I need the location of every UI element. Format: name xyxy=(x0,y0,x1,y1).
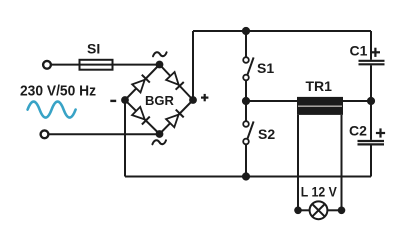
wire plus rail from bridge to top bus xyxy=(192,31,194,100)
lamp L 12 V xyxy=(294,185,345,220)
wire C2 top lead xyxy=(370,101,372,140)
diode D1 top-left xyxy=(132,75,150,93)
svg-text:C1: C1 xyxy=(350,42,368,58)
junction dot TR1 right / C1 C2 rail xyxy=(367,97,375,105)
wire C1 top lead xyxy=(370,31,372,60)
svg-text:L 12 V: L 12 V xyxy=(301,185,337,200)
wire TR1 secondary left side down to lamp xyxy=(297,115,299,210)
wire C1 bottom lead xyxy=(370,65,372,101)
TR1 core divider line xyxy=(298,105,342,107)
plus sign at right node xyxy=(201,94,208,101)
minus sign at left node xyxy=(110,100,116,102)
wire bridge edge top-left xyxy=(125,65,160,101)
wire lamp left lead xyxy=(298,209,310,211)
lamp terminal right xyxy=(338,207,346,215)
wire bottom bus xyxy=(125,176,371,178)
AC tilde bottom node xyxy=(152,140,166,144)
wire minus rail down from bridge left node xyxy=(124,100,126,177)
wire TR1 secondary right side down to lamp xyxy=(341,115,343,210)
transformer TR1 xyxy=(297,78,343,115)
wire bridge edge top-right xyxy=(160,65,194,101)
lamp terminal left xyxy=(294,207,302,215)
capacitor C2 xyxy=(349,123,385,145)
TR1 winding bar xyxy=(297,97,343,115)
svg-text:BGR: BGR xyxy=(145,93,175,108)
svg-text:230 V/50 Hz: 230 V/50 Hz xyxy=(20,84,96,100)
wire switch column upper segment xyxy=(245,31,247,57)
wire C2 bottom lead xyxy=(370,146,372,177)
node top (AC) xyxy=(156,61,164,69)
node left (minus) xyxy=(121,96,129,104)
terminal upper AC input xyxy=(43,61,51,69)
terminal lower AC input xyxy=(41,130,49,138)
svg-text:SI: SI xyxy=(87,41,100,57)
AC tilde top node xyxy=(153,52,167,56)
wire bridge edge bottom-right xyxy=(160,100,194,134)
wire TR1 right lead xyxy=(343,100,371,102)
svg-text:S1: S1 xyxy=(257,60,274,76)
wire between S2 lower contact and bottom bus xyxy=(245,144,247,176)
diode D2 top-right xyxy=(166,72,184,90)
wire lamp right lead xyxy=(327,209,341,211)
wire TR1 left lead xyxy=(246,100,297,102)
wire lower AC input xyxy=(49,133,160,135)
node bottom (AC) xyxy=(156,130,164,138)
wire between S1 lower contact and TR1 node xyxy=(245,80,247,121)
diode D4 bottom-right xyxy=(166,109,184,127)
wire bridge edge bottom-left xyxy=(125,100,160,134)
node right (plus) xyxy=(189,96,197,104)
fuse SI xyxy=(80,60,113,70)
wire fuse input xyxy=(51,64,160,66)
bridge rectifier BGR xyxy=(110,52,208,144)
junction dot S1/S2/TR1 node xyxy=(242,97,250,105)
svg-text:TR1: TR1 xyxy=(306,78,333,94)
svg-text:S2: S2 xyxy=(258,126,275,142)
diode D3 bottom-left xyxy=(132,107,150,125)
svg-text:C2: C2 xyxy=(349,123,367,139)
junction dot top bus / S1 xyxy=(242,27,250,35)
AC sine wave xyxy=(28,102,76,118)
switch S2 xyxy=(243,121,275,144)
capacitor C1 xyxy=(350,42,385,64)
switch S1 xyxy=(243,57,274,80)
junction dot bottom bus / S2 xyxy=(242,172,250,180)
wire top bus xyxy=(193,30,371,32)
